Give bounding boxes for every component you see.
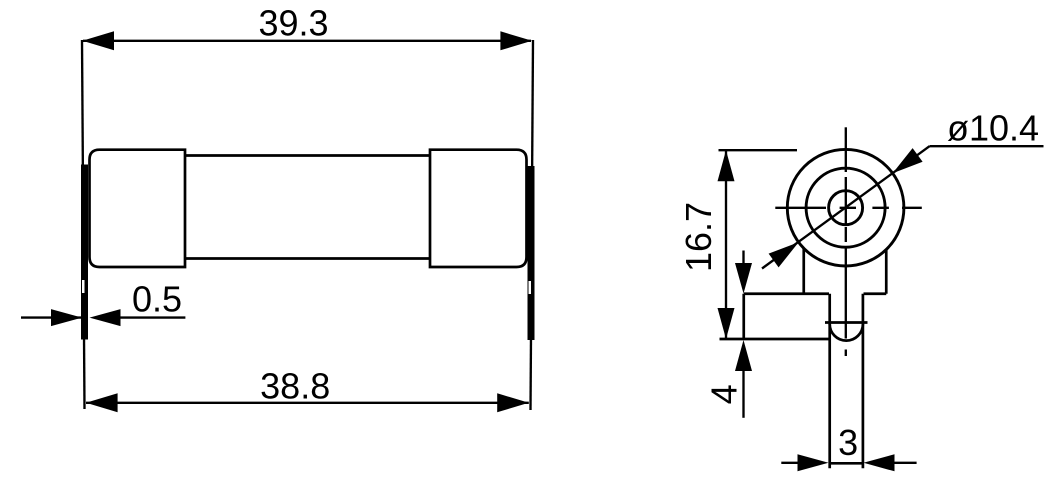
end view outer circle xyxy=(787,149,904,266)
dimension 0.5 left arrowhead xyxy=(51,309,82,326)
fuse left end cap xyxy=(90,150,186,267)
dimension 3 right tail xyxy=(895,462,917,464)
ledge bottom edge xyxy=(720,338,830,341)
pin right edge xyxy=(862,294,865,469)
dimension 3 left arrowhead xyxy=(798,454,829,471)
dimension 4 lower tail xyxy=(742,371,744,418)
diameter leader lower arrowhead xyxy=(769,242,799,267)
slot chord line xyxy=(825,321,868,324)
ledge top edge xyxy=(744,292,829,295)
dimension 38.8 line xyxy=(86,402,529,404)
svg-text:3: 3 xyxy=(838,422,858,463)
svg-text:0.5: 0.5 xyxy=(132,279,182,320)
dimension 16.7 line xyxy=(725,150,727,339)
pin bottom edge xyxy=(830,462,863,465)
ledge left edge xyxy=(742,294,745,339)
vertical centerline xyxy=(845,127,847,356)
dimension 39.3 line xyxy=(83,40,531,42)
svg-text:39.3: 39.3 xyxy=(258,3,328,44)
dimension 16.7 up arrowhead xyxy=(718,150,735,181)
svg-text:ø10.4: ø10.4 xyxy=(947,108,1039,149)
dimension 4 upper tail xyxy=(742,251,744,264)
dimension 3 right arrowhead xyxy=(864,454,895,471)
dimension 4 down arrowhead xyxy=(735,263,752,294)
pin left edge xyxy=(828,294,831,469)
dimension 0.5 right tail xyxy=(121,316,186,318)
fuse right end cap xyxy=(430,150,527,267)
dimension 38.8 left arrowhead xyxy=(86,393,118,412)
dimension 39.3 right arrowhead xyxy=(500,31,532,50)
dimension 4 up arrowhead xyxy=(735,340,752,371)
diameter leader horizontal line xyxy=(930,145,1044,147)
left clip plate (thick bar) xyxy=(81,165,88,340)
right step edge xyxy=(864,292,887,295)
svg-text:4: 4 xyxy=(704,384,745,404)
dimension 0.5 left arrow tail xyxy=(21,316,82,318)
fuse glass tube bottom edge xyxy=(185,257,430,260)
holder body left edge xyxy=(802,249,805,294)
fuse glass tube top edge xyxy=(185,154,430,157)
dimension 3 left tail xyxy=(781,462,798,464)
dimension 16.7 down arrowhead xyxy=(718,308,735,339)
dimension 16.7 top tick xyxy=(719,149,798,151)
extension line left xyxy=(82,40,85,409)
extension line right xyxy=(531,40,534,410)
horizontal centerline xyxy=(775,207,922,209)
dimension 38.8 right arrowhead xyxy=(497,393,529,412)
end view inner circle xyxy=(829,191,863,225)
dimension 39.3 left arrowhead xyxy=(82,31,114,50)
dimension 0.5 right arrowhead xyxy=(90,309,121,326)
slot semicircular arc xyxy=(830,324,863,341)
svg-text:38.8: 38.8 xyxy=(260,365,330,406)
holder body right edge xyxy=(885,250,888,294)
svg-text:16.7: 16.7 xyxy=(678,202,719,272)
right clip plate (thick bar) xyxy=(528,166,535,340)
diameter leader diagonal line xyxy=(762,146,930,268)
diameter leader upper arrowhead xyxy=(893,148,923,173)
end view middle circle xyxy=(806,168,885,247)
